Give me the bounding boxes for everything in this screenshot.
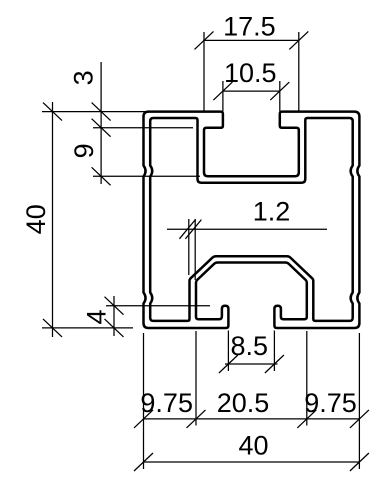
extrusion profile outer contour — [144, 112, 360, 328]
wall thickness 1.2 extension line right — [194, 219, 196, 280]
dimension 9.75/20.5/9.75 line — [144, 418, 360, 420]
dimension 9 tick bottom — [92, 167, 111, 185]
extension line top surface — [42, 111, 146, 113]
wall thickness 1.2 extension line left — [188, 219, 190, 275]
tick 20.5/9.75 boundary — [297, 410, 316, 428]
dimension 10.5 tick right — [270, 82, 289, 100]
wall thickness 1.2 leader line — [167, 228, 327, 230]
svg-text:9: 9 — [69, 143, 99, 158]
dimension 17.5 tick left — [195, 31, 214, 49]
dimension 8.5 tick right — [265, 355, 284, 373]
dimension 8.5 tick left — [219, 355, 238, 373]
dimension 10.5 line — [223, 90, 280, 92]
dimension 40 left tick bottom — [43, 319, 62, 337]
dimension 10.5 extension line right — [279, 81, 281, 111]
dimension 3 tick bottom — [92, 119, 111, 137]
dimension 8.5 extension line left — [227, 331, 229, 372]
svg-text:40: 40 — [238, 431, 268, 461]
dimension 17.5 extension line left — [203, 32, 205, 111]
dimension 4 tick bottom — [105, 319, 124, 337]
dimension 40 left tick top — [43, 103, 62, 121]
dimension 17.5 extension line right — [298, 32, 300, 111]
svg-text:17.5: 17.5 — [223, 12, 276, 42]
extension line profile left edge — [143, 333, 145, 469]
svg-text:20.5: 20.5 — [217, 388, 270, 418]
dimension 10.5 tick left — [213, 82, 232, 100]
svg-text:1.2: 1.2 — [253, 197, 291, 227]
extrusion profile inner cavity contour — [150, 118, 353, 321]
tick 9.75 left end — [134, 410, 153, 428]
extension line channel floor — [93, 175, 200, 177]
extension line lip bottom — [93, 127, 193, 129]
wall thickness 1.2 double tick — [179, 220, 195, 239]
svg-text:3: 3 — [69, 70, 99, 85]
svg-text:4: 4 — [82, 309, 112, 324]
dimension 3 tick top — [92, 103, 111, 121]
extension line bottom channel left wall — [195, 331, 197, 426]
extension line finger top — [106, 305, 210, 307]
tick 9.75/20.5 boundary — [187, 410, 206, 428]
dimension 4 line — [113, 296, 115, 336]
svg-text:9.75: 9.75 — [304, 388, 357, 418]
svg-text:40: 40 — [21, 204, 51, 234]
svg-text:8.5: 8.5 — [231, 331, 269, 361]
dimension 10.5 extension line left — [222, 81, 224, 111]
dimension 40 bottom line — [144, 461, 360, 463]
dimension 40 left line — [52, 102, 54, 337]
extension line profile right edge — [358, 333, 360, 469]
dimension 40 bottom tick left — [134, 453, 153, 471]
dimension 4 tick top — [105, 297, 124, 315]
svg-text:9.75: 9.75 — [140, 388, 193, 418]
tick 9.75 right end — [350, 410, 369, 428]
extension line bottom surface — [42, 327, 133, 329]
dimension 17.5 line — [204, 39, 299, 41]
dimension 8.5 extension line right — [273, 331, 275, 372]
svg-text:10.5: 10.5 — [224, 58, 277, 88]
dimension 17.5 tick right — [289, 31, 308, 49]
dimension 8.5 line — [225, 363, 278, 365]
extension line bottom channel right wall — [306, 331, 308, 426]
dimension 40 bottom tick right — [350, 453, 369, 471]
dimension 3/9 line — [100, 62, 102, 184]
